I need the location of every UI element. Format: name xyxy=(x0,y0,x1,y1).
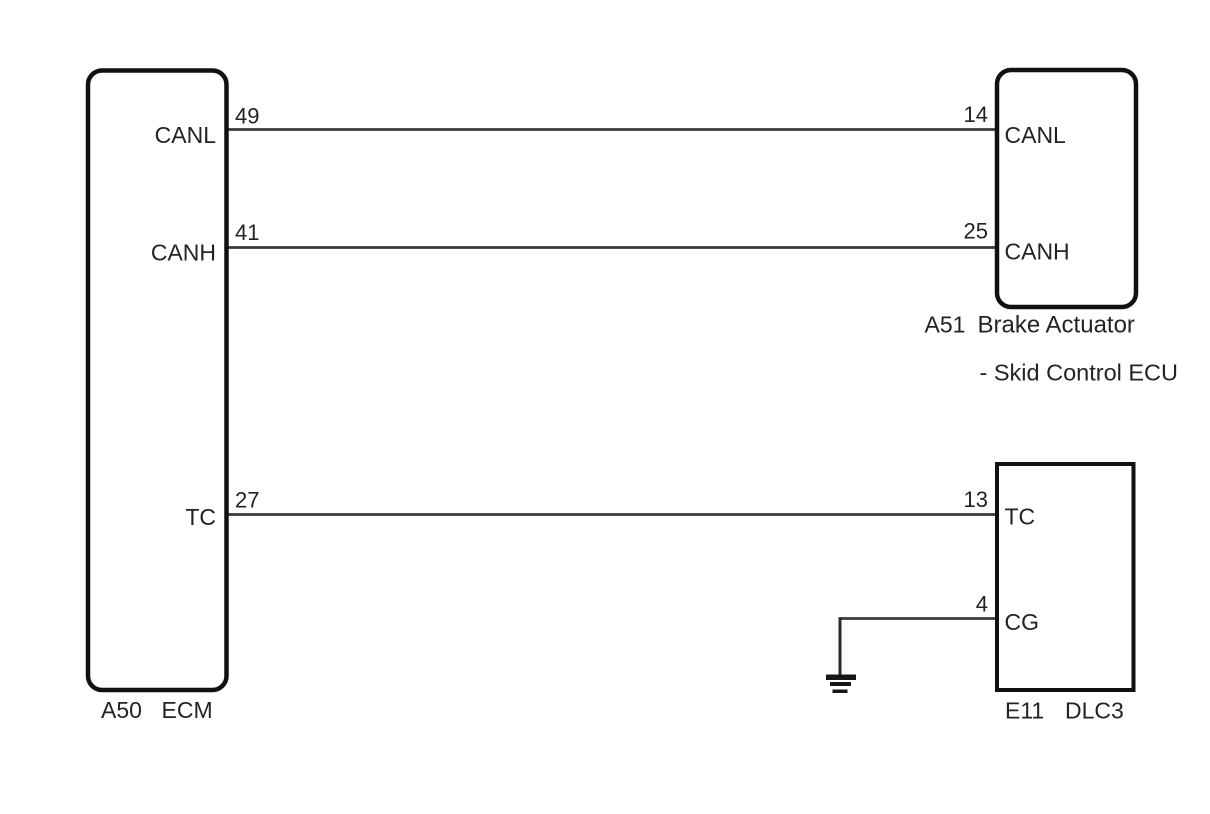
svg-text:Brake Actuator: Brake Actuator xyxy=(978,312,1135,339)
caption E11 DLC3 xyxy=(1005,698,1124,724)
wire CANH: A50 pin 41 to A51 pin 25 xyxy=(227,246,997,249)
svg-text:14: 14 xyxy=(964,102,988,127)
svg-text:TC: TC xyxy=(185,504,216,530)
caption A51 Brake Actuator xyxy=(925,312,1135,339)
svg-text:- Skid Control ECU: - Skid Control ECU xyxy=(980,360,1179,386)
svg-text:CG: CG xyxy=(1005,609,1040,635)
wire TC: A50 pin 27 to E11 pin 13 xyxy=(227,513,997,516)
svg-text:41: 41 xyxy=(235,220,259,245)
svg-text:4: 4 xyxy=(976,592,988,617)
svg-text:CANH: CANH xyxy=(151,240,216,266)
svg-text:25: 25 xyxy=(964,219,988,244)
svg-text:TC: TC xyxy=(1005,504,1036,530)
svg-text:A50: A50 xyxy=(101,697,142,723)
wire CANL: A50 pin 49 to A51 pin 14 xyxy=(227,128,997,131)
svg-text:13: 13 xyxy=(964,487,988,512)
svg-text:CANL: CANL xyxy=(1005,122,1067,148)
wire CG: ground to E11 pin 4 xyxy=(840,617,997,620)
svg-text:DLC3: DLC3 xyxy=(1065,698,1124,724)
svg-text:E11: E11 xyxy=(1005,698,1044,724)
ground xyxy=(826,675,856,694)
connector A51 Brake Actuator - Skid Control ECU xyxy=(997,70,1136,307)
svg-text:ECM: ECM xyxy=(162,697,213,723)
caption A50 ECM xyxy=(101,697,213,723)
svg-text:27: 27 xyxy=(235,488,259,513)
connector A50 ECM xyxy=(88,71,227,691)
svg-text:CANL: CANL xyxy=(155,122,217,148)
connector E11 DLC3 xyxy=(997,464,1134,690)
svg-text:A51: A51 xyxy=(925,312,966,338)
svg-text:49: 49 xyxy=(235,104,259,129)
svg-text:CANH: CANH xyxy=(1005,239,1070,265)
